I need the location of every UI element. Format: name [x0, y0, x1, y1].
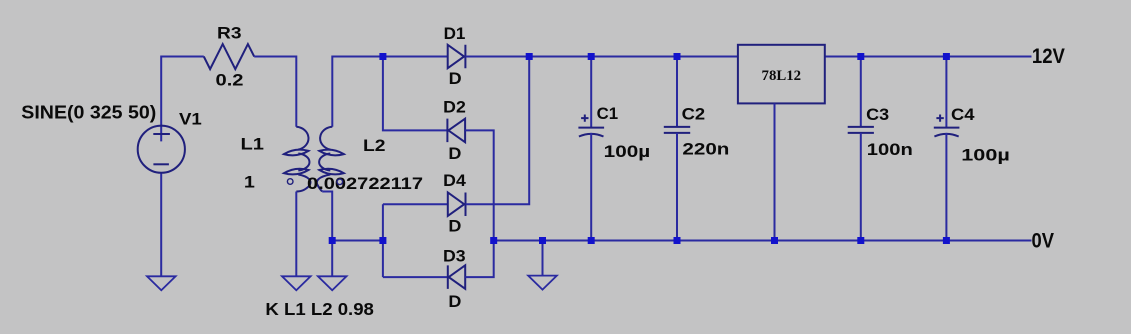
wire rail right of regulator	[825, 56, 1032, 58]
junction top rail / C1	[588, 53, 595, 60]
regulator U1 78L12	[738, 45, 825, 104]
inductor L1 loop 1	[284, 148, 309, 156]
svg-text:D: D	[449, 69, 462, 88]
capacitor C4 bottom plate	[934, 134, 958, 137]
diode D3	[448, 265, 465, 289]
wire D4-D3 branch vertical	[382, 204, 384, 277]
svg-text:K L1 L2 0.98: K L1 L2 0.98	[265, 299, 374, 319]
capacitor C4 top plate	[934, 127, 960, 129]
V1 plus sign	[153, 133, 170, 135]
wire node to D4	[383, 203, 448, 205]
wire D1 to rail	[465, 56, 738, 58]
svg-text:C2: C2	[682, 104, 706, 123]
ground node	[528, 276, 557, 290]
junction L2 bottom	[329, 237, 336, 244]
svg-text:100n: 100n	[867, 140, 913, 159]
phase dot L2	[337, 179, 343, 185]
diode D1	[448, 45, 466, 68]
wire C1 top	[590, 57, 592, 128]
inductor L2 loop 2	[319, 167, 344, 175]
wire L1 bottom	[295, 192, 297, 277]
V1 minus sign	[153, 163, 169, 165]
junction top rail / C4	[943, 53, 950, 60]
diode D4	[448, 192, 466, 216]
wire C1 bottom	[590, 133, 592, 241]
svg-text:L2: L2	[363, 136, 386, 155]
diode D2	[447, 119, 465, 142]
svg-text:D1: D1	[444, 24, 466, 43]
ground L2	[318, 276, 347, 290]
capacitor C2 bottom plate	[664, 132, 690, 134]
inductor L2 loop 1	[319, 148, 344, 156]
svg-text:D: D	[448, 216, 461, 235]
svg-text:0.2: 0.2	[216, 71, 244, 90]
svg-text:78L12: 78L12	[762, 68, 802, 84]
C4 plus sign	[936, 115, 943, 122]
wire D2 to bottom rail	[465, 130, 494, 240]
junction top rail / D2 branch	[379, 53, 386, 60]
phase dot L1	[287, 179, 293, 185]
wire C3 bottom	[860, 133, 862, 241]
svg-text:100µ: 100µ	[604, 142, 651, 161]
junction bottom rail / C3	[857, 237, 864, 244]
svg-text:C1: C1	[597, 104, 619, 123]
wire L2 bottom to node	[332, 240, 383, 242]
junction bottom rail / ground	[539, 237, 546, 244]
wire D4 to top rail	[466, 57, 530, 205]
capacitor C1 top plate	[578, 127, 604, 129]
junction bottom rail / C2	[674, 237, 681, 244]
resistor R3	[204, 44, 254, 69]
svg-text:V1: V1	[179, 110, 202, 129]
svg-text:D2: D2	[443, 98, 466, 117]
wire C2 top	[676, 57, 678, 127]
wire C3 top	[860, 57, 862, 127]
svg-text:C3: C3	[866, 105, 889, 124]
wire L2 top to rail	[332, 57, 447, 127]
svg-text:220n: 220n	[682, 139, 729, 158]
wire V1 top	[161, 57, 204, 142]
inductor L1 coil	[296, 127, 310, 192]
wire V1 bottom	[160, 173, 162, 276]
capacitor C1 bottom plate	[579, 134, 604, 137]
wire regulator gnd pin	[774, 103, 776, 240]
svg-text:C4: C4	[951, 105, 975, 124]
svg-text:R3: R3	[217, 23, 242, 42]
junction top rail / C2	[674, 53, 681, 60]
wire D3 to bottom rail	[465, 241, 494, 278]
junction top rail / D4 branch	[526, 53, 533, 60]
capacitor C3 bottom plate	[848, 132, 874, 134]
inductor L1 loop 2	[284, 167, 309, 175]
wire junction to D2	[383, 57, 448, 131]
svg-text:12V: 12V	[1032, 45, 1065, 68]
capacitor C3 top plate	[848, 126, 874, 128]
voltage source V1 circle	[138, 126, 185, 173]
ground V1	[147, 276, 176, 290]
junction bottom rail / U1 gnd	[771, 237, 778, 244]
svg-text:0.002722117: 0.002722117	[307, 174, 423, 193]
svg-text:D4: D4	[443, 171, 466, 190]
svg-text:L1: L1	[241, 135, 265, 154]
wire node to D3	[383, 276, 448, 278]
wire C4 bottom	[945, 133, 947, 241]
wire C4 top	[945, 57, 947, 128]
svg-text:D: D	[448, 144, 461, 163]
junction top rail / C3	[857, 53, 864, 60]
wire C2 bottom	[676, 133, 678, 241]
svg-text:D3: D3	[443, 246, 466, 265]
svg-text:SINE(0 325 50): SINE(0 325 50)	[21, 103, 156, 123]
svg-text:1: 1	[244, 173, 255, 192]
capacitor C2 top plate	[664, 126, 690, 128]
wire ground stub	[542, 241, 544, 277]
junction bottom rail / C4	[943, 237, 950, 244]
ground L1	[282, 276, 311, 290]
wire bottom rail	[494, 240, 1032, 242]
junction D4-D3 branch	[379, 237, 386, 244]
svg-text:100µ: 100µ	[961, 145, 1010, 164]
inductor L2 coil	[317, 127, 332, 192]
junction bottom rail / C1	[588, 237, 595, 244]
svg-text:D: D	[448, 292, 461, 311]
wire R3 to L1	[254, 57, 296, 127]
svg-text:0V: 0V	[1032, 230, 1055, 253]
C1 plus sign	[581, 115, 588, 122]
junction bottom rail / D2-D3	[490, 237, 497, 244]
wire L2 bottom	[322, 192, 332, 277]
